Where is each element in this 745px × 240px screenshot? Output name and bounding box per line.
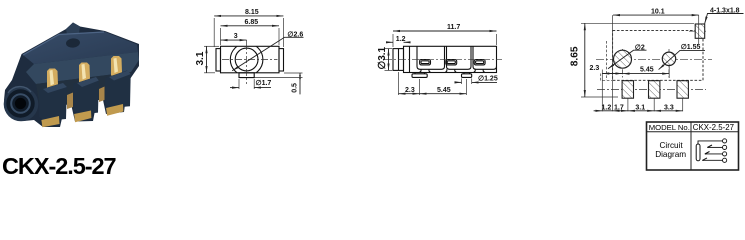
- circuit: sleeve bar: [696, 144, 700, 161]
- photo: barrel hole: [15, 98, 26, 109]
- front view: smd pad 2: [462, 74, 472, 78]
- front view: barrel section: [393, 49, 404, 71]
- svg-text:2.3: 2.3: [590, 65, 600, 72]
- front view: pin module 1: [417, 46, 445, 69]
- svg-text:0.5: 0.5: [292, 83, 299, 93]
- circuit: wire 4 with contact arrow: [703, 159, 723, 161]
- svg-text:3.1: 3.1: [635, 104, 645, 111]
- front view: pin window 3: [474, 60, 485, 65]
- top view: bottom bump (1.7): [239, 73, 254, 78]
- front view: pin window 2: [446, 60, 457, 65]
- land pattern: pad4 centreline: [689, 30, 706, 32]
- chain extension lines: [627, 98, 629, 111]
- photo: back edge highlight: [23, 32, 104, 55]
- circuit: wire 2 with contact arrow: [708, 146, 723, 148]
- svg-text:10.1: 10.1: [651, 9, 665, 16]
- front view: leg 1: [420, 69, 431, 72]
- svg-text:Circuit: Circuit: [660, 141, 684, 150]
- photo: barrel inner ring: [11, 94, 30, 113]
- photo: pin tower 1: [39, 83, 67, 121]
- front view: body inner line: [409, 46, 411, 72]
- circuit: terminal 2: [723, 145, 727, 149]
- svg-text:∅3.1: ∅3.1: [377, 46, 388, 69]
- top view: right mounting tab: [279, 49, 284, 71]
- front view: pin module 3: [473, 46, 497, 69]
- circuit: terminal 4: [723, 158, 727, 162]
- circuit: wire 3 with contact arrow: [706, 153, 723, 155]
- table header divider: [647, 131, 739, 133]
- land pattern: top right pad: [695, 24, 705, 38]
- photo: gold foot 3: [106, 104, 123, 116]
- front view: pin module 2: [447, 46, 472, 69]
- land pattern: body dashed outline: [613, 30, 703, 80]
- svg-text:6.85: 6.85: [245, 19, 259, 26]
- svg-text:3.3: 3.3: [664, 104, 674, 111]
- table outer border: [647, 122, 739, 170]
- front view: main body: [404, 46, 497, 72]
- photo: barrel face: [6, 89, 34, 117]
- land pattern: vertical centreline small circle: [668, 49, 670, 78]
- top view: inner hole circle: [235, 48, 258, 71]
- front view: centreline: [384, 59, 502, 61]
- land pattern: small hole pad dia1.55: [662, 52, 675, 65]
- photo: ear notch: [66, 23, 80, 35]
- photo: gold foot 2: [74, 111, 91, 123]
- svg-text:3.1: 3.1: [195, 51, 206, 65]
- svg-text:5.45: 5.45: [437, 87, 451, 94]
- land pattern: bottom pad 2: [649, 81, 660, 99]
- land pattern: bottom pad 3: [677, 81, 688, 99]
- photo: gold pin 2: [79, 63, 90, 84]
- top view: body outline: [221, 46, 280, 73]
- svg-text:8.15: 8.15: [245, 9, 259, 16]
- svg-text:CKX-2.5-27: CKX-2.5-27: [2, 153, 117, 176]
- svg-text:8.65: 8.65: [570, 46, 581, 66]
- land pattern: pad row centreline: [597, 89, 706, 91]
- svg-text:MODEL No.: MODEL No.: [649, 123, 690, 132]
- land pattern: bottom pad 1: [622, 81, 633, 99]
- svg-text:CKX-2.5-27: CKX-2.5-27: [693, 123, 734, 132]
- svg-text:1.2: 1.2: [602, 104, 612, 111]
- circuit: terminal 3: [723, 152, 727, 156]
- photo: connector body silhouette: [4, 23, 139, 128]
- circuit: terminal 1: [723, 139, 727, 143]
- photo: gold foot 1: [41, 116, 59, 127]
- circuit: tip wire: [698, 141, 723, 144]
- svg-text:11.7: 11.7: [447, 24, 460, 31]
- table column divider: [690, 122, 692, 170]
- svg-text:Diagram: Diagram: [655, 150, 686, 159]
- land pattern: horizontal centreline: [596, 58, 712, 60]
- photo: top face lower part: [26, 52, 139, 84]
- photo: gold bit between towers 1-2: [67, 93, 73, 110]
- svg-text:5.45: 5.45: [640, 67, 654, 74]
- photo: gold pin 3: [111, 56, 122, 77]
- photo: front face under ridge: [36, 72, 131, 108]
- svg-text:3: 3: [234, 33, 238, 40]
- photo: pin tower 3: [105, 71, 131, 109]
- top view: vertical centreline: [246, 43, 248, 84]
- top view: horizontal centreline: [222, 59, 278, 61]
- svg-text:1.7: 1.7: [614, 104, 624, 111]
- front view: leg 3: [474, 69, 485, 72]
- photo: barrel top highlight: [8, 87, 31, 93]
- land pattern: vertical centreline big circle: [622, 49, 624, 78]
- top view: left mounting tab: [216, 49, 221, 71]
- front view: smd pad 1: [412, 74, 427, 78]
- front view: barrel ring line: [398, 49, 400, 71]
- svg-text:∅1.7: ∅1.7: [256, 79, 272, 87]
- front view: leg 2: [445, 69, 456, 72]
- svg-text:2.3: 2.3: [405, 87, 415, 94]
- svg-text:∅1.25: ∅1.25: [478, 75, 498, 83]
- photo: gold pin 1: [47, 69, 58, 90]
- photo: top face: [23, 32, 138, 65]
- photo: pin tower 2: [73, 77, 99, 115]
- land pattern: big hole pad dia2: [614, 50, 632, 68]
- land pattern: barrel dashed outline: [606, 41, 608, 80]
- photo: gold bit between towers 2-3: [99, 87, 105, 103]
- photo: top face hole: [66, 38, 81, 49]
- photo: barrel outer: [4, 87, 39, 122]
- front view: pin window 1: [420, 60, 431, 65]
